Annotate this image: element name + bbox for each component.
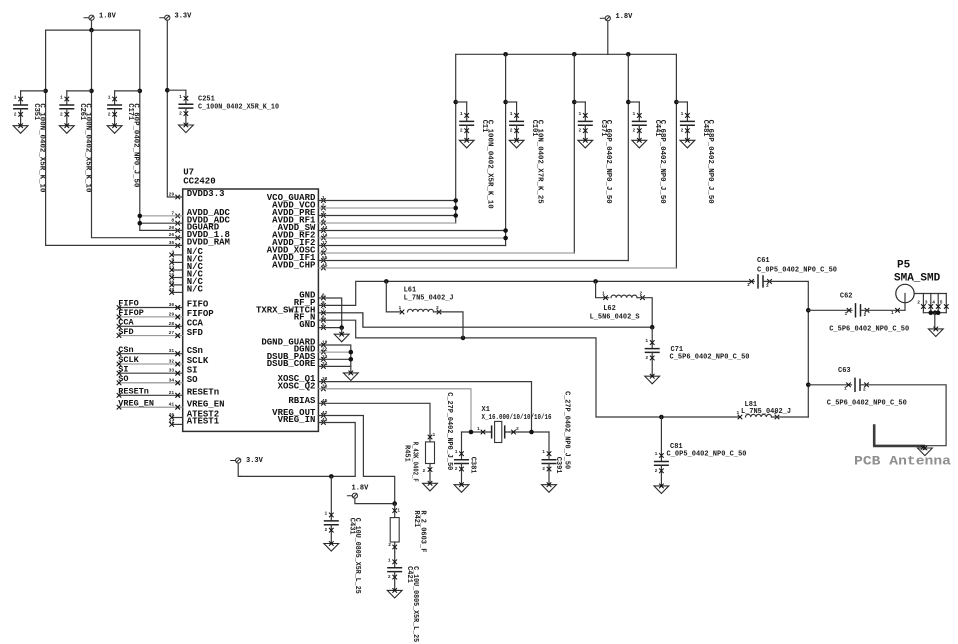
svg-text:1.8V: 1.8V [616,13,634,21]
svg-text:SFD: SFD [118,327,133,337]
svg-text:2: 2 [640,291,643,297]
power symbol 1.8V top-middle [600,13,633,21]
svg-text:1: 1 [681,111,684,117]
svg-text:RESETn: RESETn [187,388,219,398]
wire DSUB_CORE row [318,365,350,367]
IC U7 CC2420 body [183,189,319,431]
svg-text:SO: SO [187,375,198,385]
wire RBIAS net [318,403,430,442]
svg-text:2: 2 [863,386,866,392]
svg-text:1: 1 [179,94,182,100]
svg-text:1: 1 [845,311,848,317]
wire AVDD_XOSC row [318,252,574,254]
svg-text:1: 1 [397,508,400,514]
node C251 tap [165,88,170,93]
wire 3.3V stub bottom [238,463,241,476]
wire net VREG_EN [119,406,183,408]
svg-text:2: 2 [60,111,63,117]
svg-text:C_100N_0402_X5R_K_10: C_100N_0402_X5R_K_10 [37,103,45,192]
node RF_P/L62 junction [593,279,598,284]
node rail tap x574.3 [572,52,577,57]
wire DVDD_ADC row [140,222,183,224]
svg-text:R_2_0603_F: R_2_0603_F [418,510,426,552]
wire AVDD_IF2 row [318,245,505,247]
wire AVDD_IF1 row [318,260,628,262]
capacitor C61 [747,274,772,289]
svg-text:C62: C62 [840,293,853,301]
capacitor C261 [59,91,74,133]
svg-text:CSn: CSn [118,345,133,355]
svg-text:ATEST1: ATEST1 [187,417,220,427]
svg-text:C251: C251 [198,95,215,103]
svg-text:C_5P6_0402_NP0_C_50: C_5P6_0402_NP0_C_50 [827,400,907,408]
wire net SI [119,372,183,374]
svg-text:C_0P5_0402_NP0_C_50: C_0P5_0402_NP0_C_50 [667,450,747,458]
node C371 tap [572,100,577,105]
node 1.8V rail junction [89,28,94,33]
svg-text:1: 1 [433,432,436,438]
wire AVDD_VCO row [318,207,455,209]
wire AVDD_CHP row [318,267,676,269]
svg-text:C_100N_0402_X5R_K_10: C_100N_0402_X5R_K_10 [198,103,279,111]
capacitor C381 [454,432,469,492]
svg-text:CSn: CSn [187,346,203,356]
ground antenna [918,446,933,456]
node rail tap x628.3 [626,52,631,57]
svg-text:2: 2 [633,128,636,134]
wire net SO [119,382,183,384]
svg-text:VREG_EN: VREG_EN [118,398,154,408]
svg-text:1: 1 [108,95,111,101]
svg-text:SI: SI [118,364,128,374]
node VREG_OUT/R421 junction [392,501,397,506]
capacitor C351 [13,91,28,133]
svg-text:L61: L61 [404,287,417,295]
svg-text:2: 2 [655,468,658,474]
capacitor C71 [645,327,660,384]
ground DGND pins [343,371,358,381]
svg-text:2: 2 [645,355,648,361]
resistor R451 [423,432,436,483]
wire C101 hook [506,101,517,103]
svg-text:2: 2 [510,128,513,134]
wire DGND row [318,351,350,353]
wire crystal left lead [462,431,492,433]
wire AVDD_SW row [318,230,505,232]
wire DVDD_RAM column x45.6 [46,30,183,245]
wire net FIFO [119,307,183,309]
svg-text:C_10U_0805_X5R_L_25: C_10U_0805_X5R_L_25 [411,566,419,642]
connector P5 SMA_SMD [896,284,949,312]
wire GND pin6 to ground [318,298,341,328]
svg-text:C_0P5_0402_NP0_C_50: C_0P5_0402_NP0_C_50 [757,267,837,275]
wire net CCA [119,325,183,327]
capacitor C62 [845,303,870,318]
node GND junction [339,325,344,330]
ground GND pins [334,332,349,342]
power symbol 1.8V top-left [84,13,117,21]
wire 3.3V column to DVDD3.3 [167,20,182,197]
svg-text:3.3V: 3.3V [246,457,264,465]
node C351 tap [43,89,48,94]
svg-text:1: 1 [388,557,391,563]
svg-text:1: 1 [602,291,605,297]
wire L61 to RF_N [434,312,464,338]
svg-text:C_68P_0402_NP0_J_50: C_68P_0402_NP0_J_50 [658,120,666,204]
capacitor C421 [387,552,402,598]
svg-text:C_10U_0805_X5R_L_25: C_10U_0805_X5R_L_25 [353,518,361,594]
svg-text:C_27P_0402_NP0_J_50: C_27P_0402_NP0_J_50 [563,391,571,469]
node C441 tap [626,100,631,105]
svg-text:1: 1 [542,449,545,455]
svg-text:2: 2 [14,111,17,117]
wire C481 hook [676,101,687,103]
node AVDD_PRE junction [453,213,458,218]
svg-text:1: 1 [579,111,582,117]
svg-text:2: 2 [766,283,769,289]
resistor R421 [388,504,400,552]
capacitor C481 [680,102,695,148]
wire C11 hook [456,101,467,103]
svg-text:PCB Antenna: PCB Antenna [854,454,951,469]
node C261 tap [89,89,94,94]
wire RF_N net down-right [318,320,740,417]
svg-text:SO: SO [118,374,128,384]
svg-text:2: 2 [460,128,463,134]
wire L61 top lead [386,281,402,312]
wire column C441 x628.3 [627,54,629,260]
wire C261 hook [67,90,92,92]
wire 1.8V rail top-middle [456,53,677,55]
node SMA shield junction c [936,310,941,315]
svg-text:C_68P_0402_NP0_J_50: C_68P_0402_NP0_J_50 [706,120,714,204]
ground R451 [423,481,438,491]
svg-text:2: 2 [325,527,328,533]
svg-text:L_5N6_0402_S: L_5N6_0402_S [590,313,640,321]
wire AVDD_ADC/DVDD_ADC/DGUARD column x139.8 [140,30,183,230]
capacitor C371 [578,102,593,148]
capacitor C441 [632,102,647,148]
svg-text:2: 2 [423,468,426,474]
wire AVDD_PRE row [318,215,455,217]
wire C63 left [808,384,851,386]
svg-text:C_100N_0402_X5R_K_10: C_100N_0402_X5R_K_10 [84,103,92,192]
crystal X1 [477,421,519,442]
capacitor C251 [178,90,193,132]
svg-text:L_7N5_0402_J: L_7N5_0402_J [404,294,454,302]
svg-text:1: 1 [891,310,894,316]
wire L62 right lead down [637,298,652,328]
svg-text:SMA_SMD: SMA_SMD [894,273,941,285]
svg-text:1: 1 [14,95,17,101]
svg-text:1: 1 [60,95,63,101]
node C63 tap [806,383,811,388]
wire column C371 x574.3 [573,54,575,253]
svg-text:1: 1 [747,282,750,288]
node DVDD_ADC junction [138,221,143,226]
node C81 tap [659,415,664,420]
node DGND junction [349,350,354,355]
wire net SCLK [119,363,183,365]
node XOSC_Q1/C391 junction [529,430,534,435]
svg-text:RBIAS: RBIAS [288,396,316,406]
wire DSUB_PADS row [318,358,350,360]
wire C62 left [808,309,852,311]
svg-text:2: 2 [542,466,545,472]
wire C371 hook [574,101,585,103]
svg-text:1: 1 [325,510,328,516]
wire GND drop [341,328,343,335]
wire C62 to SMA pin1 [861,309,906,311]
svg-text:CC2420: CC2420 [183,177,215,187]
wire L81 to node V [772,416,809,418]
svg-text:VREG_IN: VREG_IN [278,415,316,425]
wire node V vertical [763,281,808,417]
svg-text:1: 1 [737,410,740,416]
svg-text:GND: GND [299,320,316,330]
wire C351 hook [21,90,46,92]
wire GND pin5 row [318,327,341,329]
svg-text:1.8V: 1.8V [99,13,117,21]
node rail tap x505.6 [503,52,508,57]
wire net SFD [119,335,183,337]
svg-text:1: 1 [399,305,402,311]
svg-text:2: 2 [388,542,391,548]
node AVDD_RF2 junction [503,236,508,241]
svg-text:2: 2 [681,128,684,134]
svg-text:VREG_EN: VREG_EN [187,399,225,409]
capacitor C391 [542,432,557,492]
wire 1.8V stub [91,20,93,30]
capacitor C101 [509,102,524,148]
svg-text:2: 2 [388,574,391,580]
svg-text:C_60P_0402_NP0_J_50: C_60P_0402_NP0_J_50 [131,103,139,187]
svg-text:1: 1 [455,449,458,455]
node RF_P/L61 junction [384,279,389,284]
svg-text:DVDD3.3: DVDD3.3 [187,189,225,199]
node TXRX/L62/C71 junction [650,325,655,330]
node SMA shield junction a [929,310,934,315]
power symbol 3.3V top-left [159,13,192,21]
node AVDD_VCO junction [453,206,458,211]
power symbol 3.3V bottom [230,457,263,465]
wire VREG_OUT to 1.8V node [318,416,394,504]
svg-text:2: 2 [516,426,519,432]
svg-text:C63: C63 [838,367,851,375]
wire net CSn [119,353,183,355]
wire column C481 x676.4 [675,54,677,268]
power symbol 1.8V bottom [347,485,369,499]
svg-text:AVDD_CHP: AVDD_CHP [272,261,316,271]
node VCO_GUARD junction [453,198,458,203]
wire AVDD_RF2 row [318,237,505,239]
node L61/RF_N junction [461,336,466,341]
svg-text:C_10N_0402_X7R_K_25: C_10N_0402_X7R_K_25 [535,120,543,204]
capacitor C431 [324,476,339,551]
svg-text:L62: L62 [603,305,616,313]
node C171 tap [138,89,143,94]
svg-text:C381: C381 [469,457,477,474]
svg-text:1: 1 [510,111,513,117]
wire DGND_GUARD to ground [318,345,350,366]
svg-text:3.3V: 3.3V [175,13,193,21]
svg-text:C_100N_0402_X5R_K_10: C_100N_0402_X5R_K_10 [486,120,494,209]
svg-text:DSUB_CORE: DSUB_CORE [267,359,316,369]
svg-text:XOSC_Q2: XOSC_Q2 [278,381,316,391]
wire C251 hook [167,89,186,91]
svg-text:1: 1 [844,385,847,391]
svg-text:1: 1 [460,111,463,117]
wire C171 hook [115,90,140,92]
svg-text:1.8V: 1.8V [352,485,370,493]
svg-text:R_43K_0402_F: R_43K_0402_F [411,442,419,482]
wire 1.8V stub bottom [355,498,395,503]
svg-text:2: 2 [436,305,439,311]
svg-text:N/C: N/C [187,285,204,295]
node DSUB_PADS junction [349,357,354,362]
svg-text:C_27P_0402_NP0_J_50: C_27P_0402_NP0_J_50 [445,392,453,470]
capacitor C11 [459,102,474,148]
wire net RESETn [119,394,183,396]
svg-text:SI: SI [187,365,198,375]
svg-text:DVDD_RAM: DVDD_RAM [187,238,230,248]
svg-text:2: 2 [774,410,777,416]
ground SMA shield [928,327,943,337]
wire VREG_IN to 3.3V rail [241,423,355,477]
svg-text:SFD: SFD [187,328,204,338]
node SMA shield junction b [933,310,938,315]
wire net FIFOP [119,316,183,318]
svg-text:X1: X1 [482,406,490,414]
wire SMA shield to ground [934,313,936,329]
wire crystal right lead [505,431,549,433]
wire 1.8V rail top-left [46,29,140,31]
wire XOSC_Q1 net [318,382,531,432]
svg-text:2: 2 [579,128,582,134]
svg-text:2: 2 [108,111,111,117]
wire 1.8V stub top-middle [607,21,609,54]
wire L62 left lead [596,281,609,297]
svg-text:1: 1 [655,451,658,457]
svg-text:2: 2 [455,466,458,472]
wire DVDD_1.8 column x91.5 [92,30,183,238]
svg-text:2: 2 [917,300,920,306]
node C11 tap [453,100,458,105]
wire column C11 x455.7 [455,54,457,223]
svg-text:C391: C391 [554,457,562,474]
svg-text:2: 2 [864,312,867,318]
svg-text:C_5P6_0402_NP0_C_50: C_5P6_0402_NP0_C_50 [829,325,909,333]
wire XOSC_Q2 net [318,389,471,432]
capacitor C171 [107,91,122,133]
svg-text:1: 1 [645,338,648,344]
wire RF_P net to C61 [318,281,754,305]
svg-text:1: 1 [477,426,480,432]
node AVDD_ADC junction [138,214,143,219]
antenna PCB trace symbol [873,424,925,446]
node AVDD_SW junction [503,228,508,233]
svg-text:X_16.000/10/10/10/16: X_16.000/10/10/10/16 [482,414,552,422]
capacitor C63 [844,378,869,393]
svg-text:C_60P_0402_NP0_J_50: C_60P_0402_NP0_J_50 [604,120,612,204]
node C481 tap [674,100,679,105]
svg-text:1: 1 [633,111,636,117]
svg-text:C_5P6_0402_NP0_C_50: C_5P6_0402_NP0_C_50 [670,353,750,361]
inductor L81 [737,410,780,419]
wire column C101 x505.6 [505,54,507,245]
svg-text:RESETn: RESETn [118,387,149,397]
wire TXRX_SWITCH net [318,313,652,327]
wire C63 to antenna [860,385,946,446]
inductor L62 [602,291,645,300]
wire DGND drop [350,366,352,373]
capacitor C81 [654,417,669,494]
svg-text:R451: R451 [403,445,411,462]
svg-text:P5: P5 [897,260,911,272]
node C62 tap [806,308,811,313]
wire C441 hook [628,101,639,103]
svg-text:2: 2 [179,111,182,117]
svg-text:C61: C61 [757,257,770,265]
node XOSC_Q2/C381 junction [469,430,474,435]
wire AVDD_RF1 row [318,222,455,224]
wire AVDD_ADC row [140,215,183,217]
inductor L61 [399,305,442,314]
wire VCO_GUARD row [318,200,455,202]
node C101 tap [503,100,508,105]
node C431 tap [329,474,334,479]
